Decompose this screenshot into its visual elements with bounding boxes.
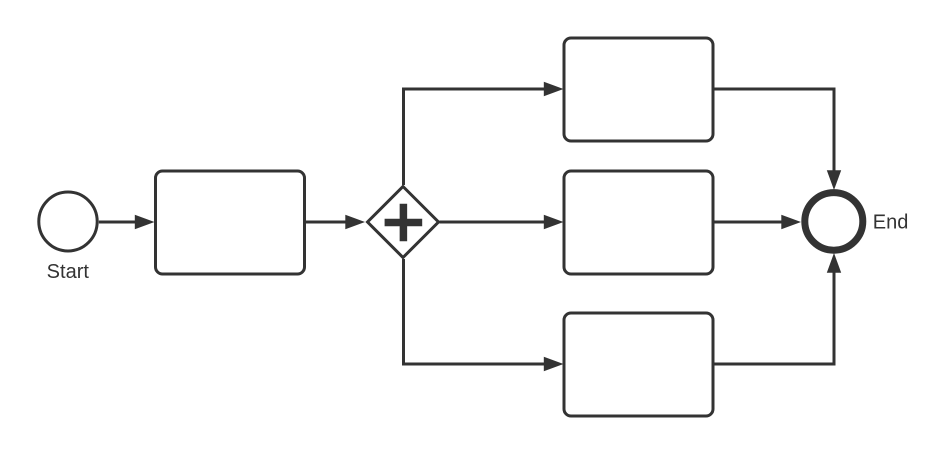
gateway plus marker (385, 204, 423, 242)
arrowhead into middle task (544, 215, 564, 229)
svg-text:End: End (873, 212, 909, 234)
wire start to task1 (99, 221, 141, 224)
end event circle (805, 193, 863, 251)
gateway G1 parallel diamond (368, 187, 439, 258)
arrowhead into bottom task (544, 357, 564, 371)
task T1 (156, 171, 305, 274)
task T3 middle (564, 171, 713, 274)
wire bottom task to end (713, 267, 834, 365)
task T4 bottom (564, 313, 713, 416)
arrowhead into end left (781, 215, 801, 229)
wire task1 to gateway (305, 221, 352, 224)
start event circle (39, 192, 97, 251)
arrowhead into gateway (345, 215, 365, 229)
arrowhead into end bottom (827, 253, 841, 273)
wire gateway to bottom task (404, 259, 551, 364)
arrowhead into task1 (135, 215, 155, 229)
arrowhead into top task (544, 82, 564, 96)
wire gateway to middle task (440, 221, 551, 224)
task T2 top (564, 38, 713, 141)
svg-text:Start: Start (47, 261, 90, 283)
wire gateway to top task (404, 89, 551, 185)
wire middle task to end (713, 221, 788, 224)
wire top task to end (713, 89, 834, 177)
arrowhead into end top (827, 170, 841, 190)
